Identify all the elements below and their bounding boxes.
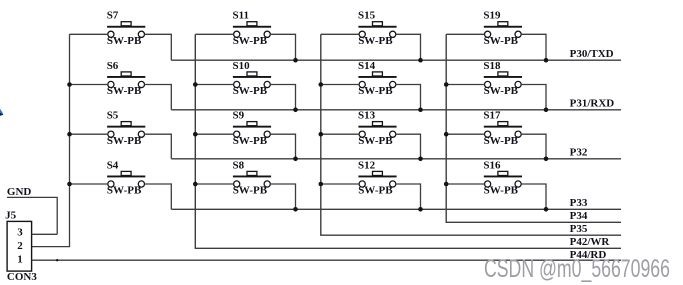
wire S5 right terminal drop to row line 3 xyxy=(144,134,171,159)
wire S6 right terminal drop to row line 2 xyxy=(144,85,171,110)
wire S16 right terminal drop to row line 4 xyxy=(521,184,546,209)
svg-text:SW-PB: SW-PB xyxy=(107,185,142,197)
wire S19 right terminal drop to row line 1 xyxy=(521,34,546,60)
wire S8 left terminal to column 2 line xyxy=(195,183,233,185)
wire S18 left terminal to column 4 line xyxy=(446,84,484,86)
svg-text:S10: S10 xyxy=(233,60,251,72)
svg-text:SW-PB: SW-PB xyxy=(107,135,142,147)
svg-text:SW-PB: SW-PB xyxy=(233,185,268,197)
svg-text:SW-PB: SW-PB xyxy=(484,185,519,197)
svg-text:P34: P34 xyxy=(570,210,588,222)
push-button S15 (SW-PB) xyxy=(358,10,397,47)
wire S16 left terminal to column 4 line xyxy=(446,183,484,185)
svg-text:1: 1 xyxy=(17,253,23,265)
wire row line 1 to P30/TXD xyxy=(171,59,621,61)
wire S7 right terminal drop to row line 1 xyxy=(144,34,171,60)
svg-text:2: 2 xyxy=(17,240,23,252)
wire pin 3 to GND xyxy=(32,233,58,235)
junction column 3 drop / row line 2 xyxy=(418,108,423,113)
wire row line 4 to P33 xyxy=(171,208,621,210)
wire pin 1 to P44/RD line xyxy=(32,259,621,261)
wire S11 left terminal to column 2 line xyxy=(195,33,233,35)
svg-text:S8: S8 xyxy=(233,159,245,171)
push-button S12 (SW-PB) xyxy=(358,159,397,196)
wire row line 3 to P32 xyxy=(171,158,621,160)
junction column 4 drop / row line 1 xyxy=(544,58,549,63)
junction column 2 / row wire 3 xyxy=(193,132,198,137)
svg-text:SW-PB: SW-PB xyxy=(358,135,393,147)
wire S9 right terminal drop to row line 3 xyxy=(270,134,295,159)
wire GND rail down to pin 3 xyxy=(7,197,57,234)
junction column 1 / row wire 2 xyxy=(67,82,72,87)
junction column 3 drop / row line 3 xyxy=(418,157,423,162)
push-button S4 (SW-PB) xyxy=(107,159,146,196)
junction column 3 / row wire 3 xyxy=(319,132,324,137)
svg-text:3: 3 xyxy=(17,226,23,238)
wire S13 right terminal drop to row line 3 xyxy=(396,134,421,159)
wire S4 right terminal drop to row line 4 xyxy=(144,184,171,209)
push-button S11 (SW-PB) xyxy=(233,10,272,47)
junction column 3 drop / row line 4 xyxy=(418,207,423,212)
wire S8 right terminal drop to row line 4 xyxy=(270,184,295,209)
junction column 2 drop / row line 4 xyxy=(293,207,298,212)
wire S12 left terminal to column 3 line xyxy=(321,183,359,185)
junction column 4 / row wire 4 xyxy=(444,182,449,187)
svg-text:SW-PB: SW-PB xyxy=(233,135,268,147)
junction column 2 drop / row line 3 xyxy=(293,157,298,162)
svg-text:S15: S15 xyxy=(358,10,376,22)
wire S10 right terminal drop to row line 2 xyxy=(270,85,295,110)
svg-text:S16: S16 xyxy=(483,159,501,171)
svg-text:CON3: CON3 xyxy=(7,271,37,283)
svg-text:J5: J5 xyxy=(5,209,17,221)
push-button S16 (SW-PB) xyxy=(483,159,522,196)
svg-text:S7: S7 xyxy=(107,10,119,22)
wire S11 right terminal drop to row line 1 xyxy=(270,34,295,60)
svg-text:SW-PB: SW-PB xyxy=(484,85,519,97)
wire S6 left terminal to column 1 line xyxy=(70,84,108,86)
push-button S13 (SW-PB) xyxy=(358,110,397,147)
svg-text:SW-PB: SW-PB xyxy=(484,35,519,47)
svg-text:S18: S18 xyxy=(483,60,501,72)
wire S7 left terminal to column 1 line xyxy=(70,33,108,35)
push-button S17 (SW-PB) xyxy=(483,110,522,147)
svg-text:S6: S6 xyxy=(107,60,119,72)
wire S14 right terminal drop to row line 2 xyxy=(396,85,421,110)
junction column 3 / row wire 4 xyxy=(319,182,324,187)
wire S12 right terminal drop to row line 4 xyxy=(396,184,421,209)
svg-text:GND: GND xyxy=(7,186,32,198)
junction column 4 drop / row line 2 xyxy=(544,108,549,113)
svg-text:S4: S4 xyxy=(107,159,119,171)
wire S13 left terminal to column 3 line xyxy=(321,133,359,135)
svg-text:P33: P33 xyxy=(570,197,588,209)
wire S10 left terminal to column 2 line xyxy=(195,84,233,86)
junction column 2 drop / row line 1 xyxy=(293,58,298,63)
svg-text:SW-PB: SW-PB xyxy=(484,135,519,147)
push-button S10 (SW-PB) xyxy=(233,60,272,97)
push-button S8 (SW-PB) xyxy=(233,159,272,196)
svg-text:P30/TXD: P30/TXD xyxy=(570,48,614,60)
junction column 2 / row wire 4 xyxy=(193,182,198,187)
junction column 3 / row wire 2 xyxy=(319,82,324,87)
junction column 1 / row wire 4 xyxy=(67,182,72,187)
svg-text:S12: S12 xyxy=(358,159,376,171)
wire column 2 vertical to P42/WR line xyxy=(195,34,621,248)
wire S19 left terminal to column 4 line xyxy=(446,33,484,35)
junction column 4 drop / row line 3 xyxy=(544,157,549,162)
wire S9 left terminal to column 2 line xyxy=(195,133,233,135)
watermark CSDN @m0_56670966 xyxy=(484,255,670,284)
svg-text:S13: S13 xyxy=(358,110,376,122)
push-button S14 (SW-PB) xyxy=(358,60,397,97)
wire S4 left terminal to column 1 line xyxy=(70,183,108,185)
junction artifact on pin 1 line xyxy=(56,259,58,261)
svg-text:P42/WR: P42/WR xyxy=(570,236,611,248)
junction column 1 / row wire 3 xyxy=(67,132,72,137)
junction column 4 / row wire 3 xyxy=(444,132,449,137)
svg-text:S19: S19 xyxy=(483,10,501,22)
svg-text:SW-PB: SW-PB xyxy=(358,185,393,197)
svg-text:P31/RXD: P31/RXD xyxy=(570,98,615,110)
wire S15 left terminal to column 3 line xyxy=(321,33,359,35)
svg-text:SW-PB: SW-PB xyxy=(358,35,393,47)
wire column 4 vertical to P34 line xyxy=(446,34,621,222)
push-button S18 (SW-PB) xyxy=(483,60,522,97)
wire S18 right terminal drop to row line 2 xyxy=(521,85,546,110)
svg-text:S14: S14 xyxy=(358,60,376,72)
svg-text:SW-PB: SW-PB xyxy=(233,85,268,97)
junction column 2 drop / row line 2 xyxy=(293,108,298,113)
wire column 1 vertical (to J5 pin 2) xyxy=(32,34,70,246)
wire S5 left terminal to column 1 line xyxy=(70,133,108,135)
svg-text:S17: S17 xyxy=(483,110,501,122)
wire row line 2 to P31/RXD xyxy=(171,109,621,111)
push-button S7 (SW-PB) xyxy=(107,10,146,47)
push-button S6 (SW-PB) xyxy=(107,60,146,97)
junction column 4 drop / row line 4 xyxy=(544,207,549,212)
svg-text:SW-PB: SW-PB xyxy=(107,35,142,47)
svg-text:S11: S11 xyxy=(233,10,250,22)
push-button S5 (SW-PB) xyxy=(107,110,146,147)
svg-text:S9: S9 xyxy=(233,110,245,122)
svg-text:P32: P32 xyxy=(570,147,588,159)
blue mark (clipped cursor) at left edge xyxy=(0,109,4,116)
push-button S9 (SW-PB) xyxy=(233,110,272,147)
push-button S19 (SW-PB) xyxy=(483,10,522,47)
wire S15 right terminal drop to row line 1 xyxy=(396,34,421,60)
connector J5 CON3 body xyxy=(7,221,32,271)
svg-text:SW-PB: SW-PB xyxy=(233,35,268,47)
wire S14 left terminal to column 3 line xyxy=(321,84,359,86)
junction column 4 / row wire 2 xyxy=(444,82,449,87)
junction column 3 drop / row line 1 xyxy=(418,58,423,63)
wire column 3 vertical to P35 line xyxy=(321,34,621,235)
svg-text:P35: P35 xyxy=(570,223,588,235)
svg-text:S5: S5 xyxy=(107,110,119,122)
wire S17 left terminal to column 4 line xyxy=(446,133,484,135)
svg-text:SW-PB: SW-PB xyxy=(358,85,393,97)
junction column 2 / row wire 2 xyxy=(193,82,198,87)
svg-text:SW-PB: SW-PB xyxy=(107,85,142,97)
wire S17 right terminal drop to row line 3 xyxy=(521,134,546,159)
